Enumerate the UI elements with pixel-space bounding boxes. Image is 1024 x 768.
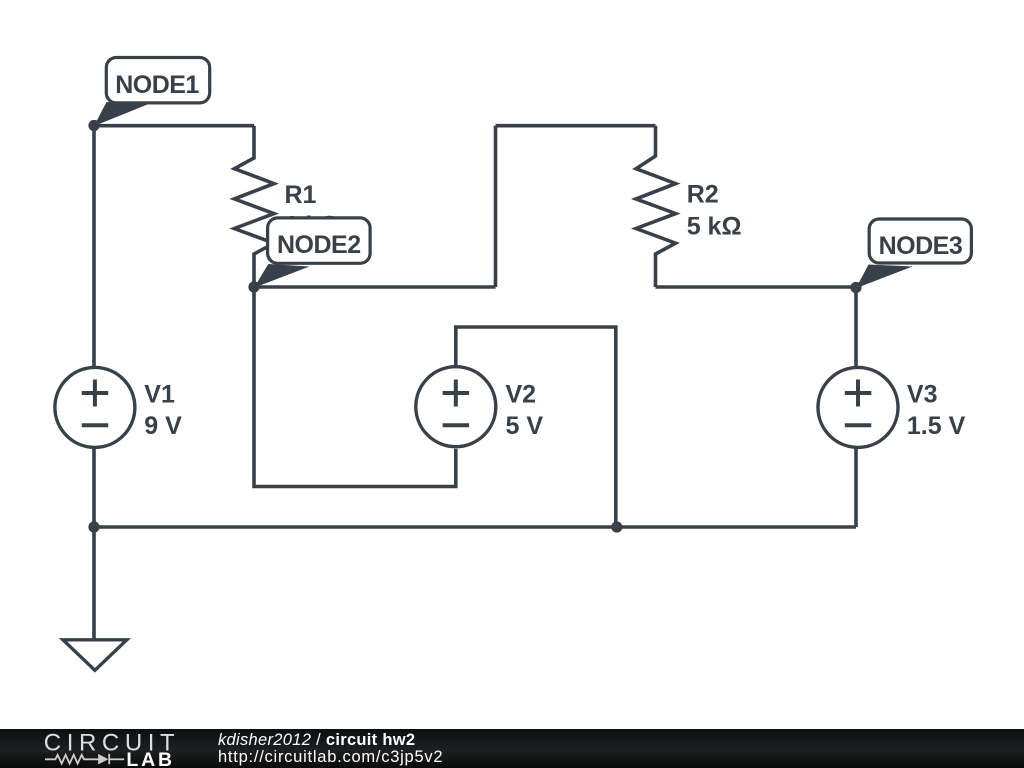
node NODE3 callout pointer: [856, 265, 913, 289]
svg-text:http://circuitlab.com/c3jp5v2: http://circuitlab.com/c3jp5v2: [218, 748, 443, 766]
voltage source V2 (circle with + / -): [416, 367, 496, 447]
svg-text:NODE2: NODE2: [277, 231, 361, 259]
svg-text:NODE3: NODE3: [879, 232, 963, 260]
wire: NODE1 to R1 top (horizontal): [94, 124, 254, 128]
node NODE1 callout box: [106, 58, 209, 103]
wire: R2 bottom to NODE3: [656, 285, 857, 289]
node NODE2 callout pointer: [254, 264, 310, 288]
svg-text:NODE1: NODE1: [115, 71, 199, 99]
wire: V1 - terminal down to ground rail: [92, 448, 96, 528]
wire: ground stem: [92, 527, 96, 639]
svg-text:5 kΩ: 5 kΩ: [687, 213, 742, 241]
junction dot at NODE3: [850, 282, 861, 293]
wire: riser up from NODE2 wire to top wire: [494, 126, 498, 287]
junction dot: ground rail at V2 branch: [611, 521, 622, 532]
resistor R2: [636, 126, 676, 287]
svg-text:V2: V2: [506, 381, 537, 409]
wire: V3 - terminal down to ground rail: [854, 448, 858, 528]
ground symbol: [63, 640, 127, 671]
node NODE2 callout box: [268, 218, 371, 263]
node NODE1 callout pointer: [94, 102, 148, 126]
wire: ground rail (bottom horizontal): [94, 525, 856, 529]
node NODE3 callout box: [869, 219, 971, 263]
wire: NODE3 down to V3 + terminal: [854, 287, 858, 367]
svg-text:9 V: 9 V: [144, 412, 182, 440]
junction dot: ground rail left: [88, 521, 99, 532]
svg-text:LAB: LAB: [126, 749, 174, 768]
voltage source V3 (circle with + / -): [818, 367, 898, 447]
svg-text:R1: R1: [285, 181, 317, 209]
resistor R1: [234, 126, 274, 287]
svg-text:kdisher2012 / circuit hw2: kdisher2012 / circuit hw2: [218, 731, 415, 749]
svg-text:R2: R2: [687, 181, 719, 209]
svg-text:V3: V3: [907, 381, 938, 409]
CircuitLab logo resistor-diode glyph: [45, 754, 124, 764]
svg-text:V1: V1: [144, 381, 175, 409]
wire: top wire to R2: [496, 124, 656, 128]
wire: NODE1 down to V1 + terminal: [92, 126, 96, 368]
footer bar: [0, 729, 1024, 768]
svg-text:1.5 V: 1.5 V: [907, 412, 966, 440]
svg-text:5 V: 5 V: [506, 412, 544, 440]
wire: V2 + terminal up and over to ground rail: [456, 327, 616, 527]
voltage source V1 (circle with + / -): [55, 367, 135, 447]
junction dot at NODE1: [88, 120, 99, 131]
wire: NODE2 horizontal to right riser: [254, 285, 496, 289]
wire: NODE2 column down to V2 bottom loop: [254, 287, 456, 487]
junction dot at NODE2: [248, 281, 259, 292]
